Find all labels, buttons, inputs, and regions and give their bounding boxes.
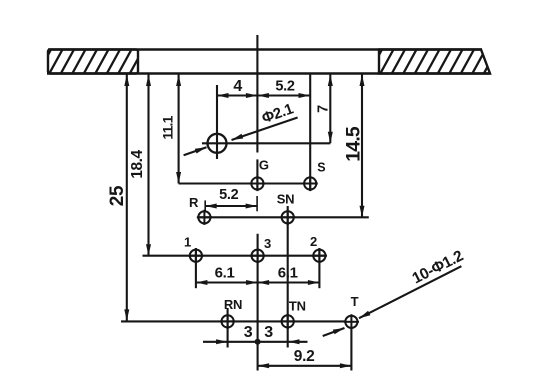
svg-text:5.2: 5.2 [275, 79, 294, 95]
G/S row line [179, 182, 317, 184]
svg-text:3: 3 [264, 324, 273, 341]
svg-text:3: 3 [264, 236, 271, 251]
svg-text:11.1: 11.1 [160, 115, 176, 139]
pad S [304, 177, 316, 189]
leader line for 10-dia1.2 [359, 266, 461, 318]
pad 1 [190, 250, 202, 262]
dimension 5.2 (R to centerline) [205, 187, 257, 211]
pad G [251, 177, 263, 189]
svg-text:SN: SN [277, 192, 294, 207]
RN/TN row line [121, 320, 346, 322]
svg-text:T: T [351, 294, 359, 309]
mounting hole (2.1mm) crosshair horizontal line [202, 142, 330, 144]
1/3/2 row line [143, 255, 327, 257]
mounting hole circle [208, 134, 227, 153]
svg-text:14.5: 14.5 [342, 126, 364, 162]
panel bottom edge line [47, 72, 490, 74]
panel left hatched section [38, 50, 143, 74]
pad SN [282, 211, 294, 223]
pad T vertical tick [350, 327, 352, 371]
pad T [345, 316, 357, 328]
svg-text:5.2: 5.2 [219, 187, 238, 203]
vertical line SN to TN [287, 206, 289, 348]
pad TN [282, 315, 294, 327]
svg-text:RN: RN [224, 297, 242, 312]
dimension 14.5 (plate to R/SN row) [342, 75, 364, 218]
panel right hatched section [369, 50, 497, 74]
pad R [198, 211, 210, 223]
svg-text:2: 2 [310, 234, 317, 249]
panel top edge line [48, 48, 482, 50]
centerline vertical (top) [256, 35, 258, 153]
dimension 4 (hole to centerline) [217, 78, 257, 98]
pad RN vertical tick [227, 308, 229, 348]
dimension 3 right (arrow outside) [228, 324, 308, 345]
pad 3 [252, 250, 264, 262]
leader line for 2.1 dia label [232, 118, 298, 141]
dimension 6.1 right [258, 265, 320, 286]
leader tail slash lower-left of pad T [323, 328, 345, 336]
pad 2 vertical tick [318, 248, 320, 288]
svg-text:3: 3 [244, 324, 253, 341]
svg-text:25: 25 [107, 185, 128, 206]
dimension 5.2 (centerline to S) [257, 79, 310, 99]
dimension 3 left (arrow outside) [203, 324, 253, 345]
svg-text:S: S [317, 161, 325, 175]
svg-text:18.4: 18.4 [129, 150, 146, 179]
dimension 25 (plate to RN/TN row) [107, 75, 130, 321]
centerline junction dot [255, 339, 261, 345]
pad RN [222, 315, 234, 327]
leader tail slash lower-left of hole [184, 147, 207, 155]
svg-text:6.1: 6.1 [215, 265, 235, 282]
svg-text:9.2: 9.2 [294, 348, 315, 365]
svg-text:6.1: 6.1 [278, 265, 298, 282]
svg-text:7: 7 [316, 105, 332, 113]
dimension 6.1 left [196, 265, 258, 286]
dimension 11.1 (plate to G/S row) [160, 75, 182, 184]
pad G vertical tick [256, 159, 258, 190]
pad 2 [313, 250, 325, 262]
svg-text:R: R [189, 195, 199, 210]
extension line through pad S [309, 75, 311, 192]
dimension 7 (plate to hole center) [316, 75, 333, 144]
svg-text:4: 4 [233, 78, 242, 95]
R/SN row line [200, 216, 369, 218]
dimension 9.2 (centerline to T) [258, 348, 352, 368]
centerline vertical (bottom, through pad 3 to 9.2 dim) [257, 234, 259, 371]
dimension 18.4 (plate to 1/3/2 row) [129, 75, 151, 256]
svg-text:1: 1 [184, 235, 191, 250]
mounting hole (2.1mm) crosshair vertical extension [216, 85, 218, 159]
pad 1 vertical tick [195, 248, 197, 288]
svg-text:TN: TN [289, 299, 306, 314]
svg-text:G: G [259, 158, 269, 173]
